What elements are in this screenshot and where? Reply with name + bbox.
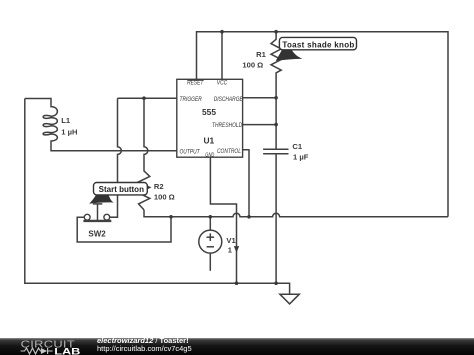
svg-text:100 Ω: 100 Ω	[154, 193, 175, 202]
svg-text:U1: U1	[203, 135, 214, 145]
svg-text:1 µH: 1 µH	[61, 128, 77, 137]
svg-text:RESET: RESET	[187, 80, 204, 87]
svg-text:OUTPUT: OUTPUT	[180, 149, 201, 156]
svg-text:SW2: SW2	[88, 229, 106, 238]
svg-text:GND: GND	[205, 152, 215, 158]
svg-text:THRESHOLD: THRESHOLD	[212, 123, 242, 130]
svg-text:1 µF: 1 µF	[293, 153, 309, 162]
svg-text:L1: L1	[61, 116, 71, 125]
svg-text:1: 1	[228, 246, 233, 255]
svg-text:R2: R2	[154, 182, 164, 191]
svg-text:CONTROL: CONTROL	[217, 148, 241, 155]
svg-text:V1: V1	[226, 236, 236, 245]
svg-text:TRIGGER: TRIGGER	[180, 97, 202, 104]
svg-text:Toast shade knob: Toast shade knob	[282, 40, 354, 49]
svg-text:DISCHARGE: DISCHARGE	[214, 97, 243, 104]
svg-text:C1: C1	[292, 142, 302, 151]
svg-text:R1: R1	[256, 50, 266, 59]
svg-text:555: 555	[202, 107, 216, 117]
svg-text:LAB: LAB	[54, 347, 80, 355]
svg-text:Start button: Start button	[99, 185, 144, 194]
svg-text:VCC: VCC	[217, 80, 228, 87]
svg-text:100 Ω: 100 Ω	[242, 60, 263, 69]
